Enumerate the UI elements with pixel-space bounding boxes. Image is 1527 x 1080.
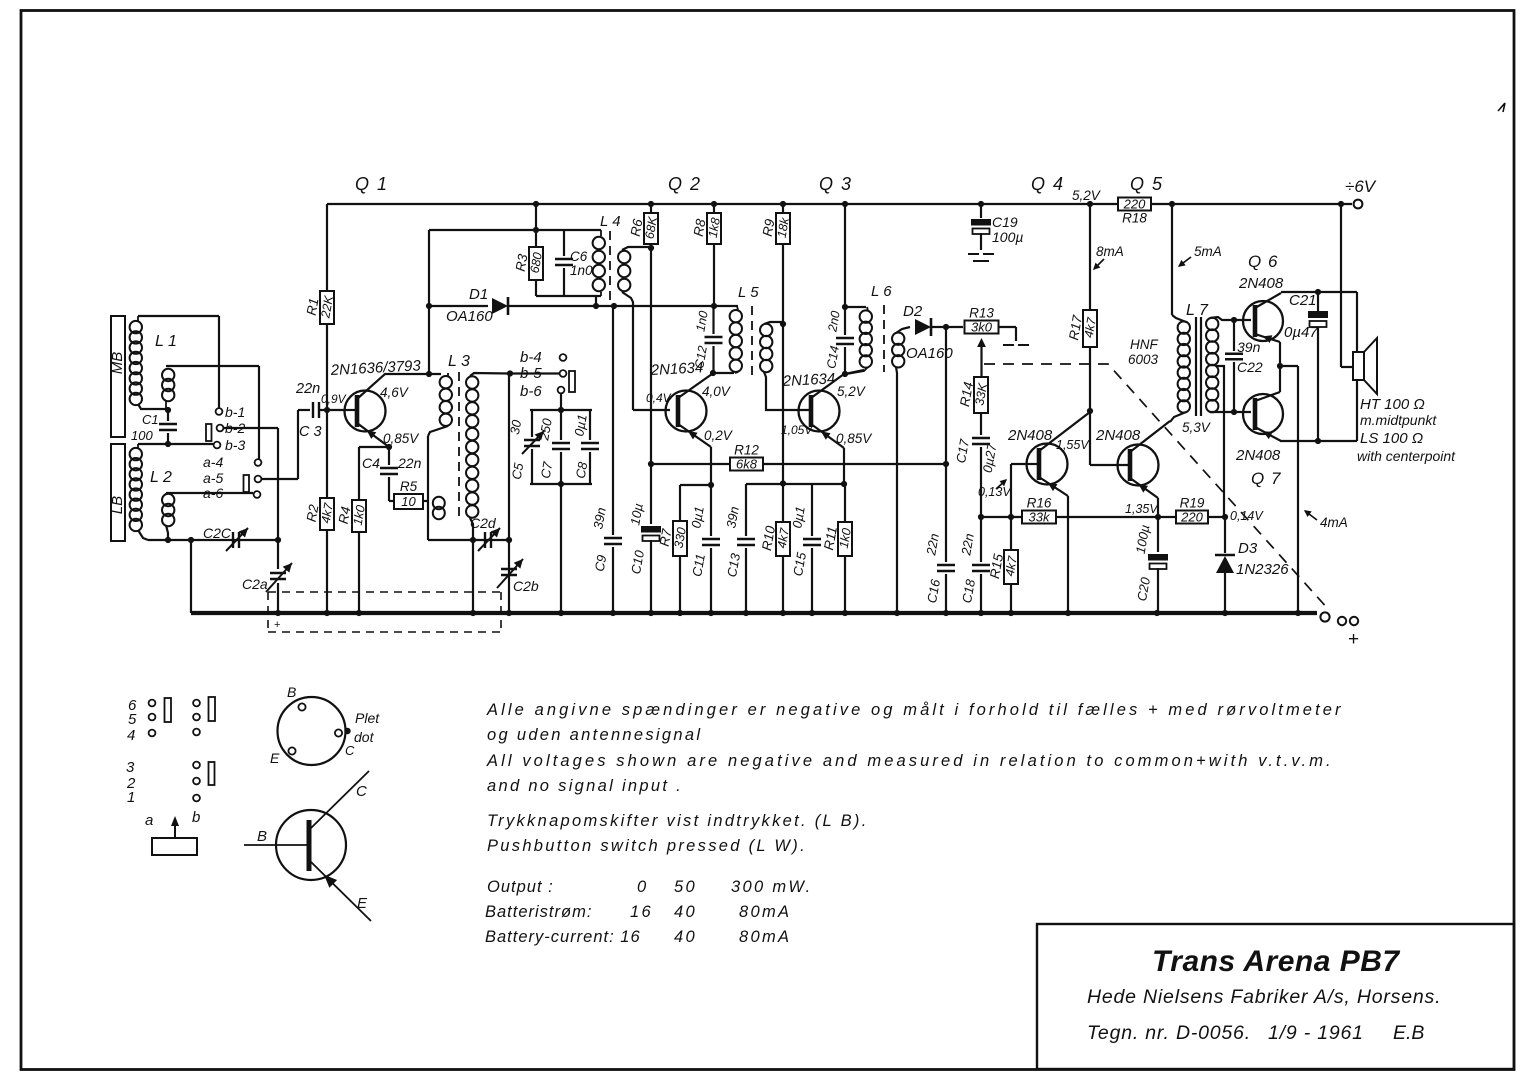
resistor R5 <box>394 494 423 509</box>
capacitor C16 <box>945 464 947 562</box>
trimmer C2C <box>233 532 239 548</box>
node e5node <box>1155 514 1161 520</box>
svg-text:C2a: C2a <box>242 576 268 592</box>
inductor L2 primary <box>130 448 142 460</box>
svg-text:R9: R9 <box>760 217 778 237</box>
svg-text:0,4V: 0,4V <box>646 391 672 405</box>
svg-text:3k0: 3k0 <box>971 320 993 335</box>
svg-text:D1: D1 <box>469 286 488 303</box>
node gnd-680 <box>677 610 683 616</box>
node rail-651 <box>648 201 654 207</box>
svg-text:5,2V: 5,2V <box>837 384 867 399</box>
inductor L1 secondary <box>162 369 174 381</box>
svg-text:6003: 6003 <box>1128 352 1159 367</box>
wire Q1 emitter <box>357 423 389 447</box>
node e1 <box>386 444 392 450</box>
node q7b <box>1231 409 1237 415</box>
transistor Q4 2N408 <box>1027 444 1068 485</box>
node gnd-1157 <box>1154 610 1160 616</box>
switch bar b456 <box>569 371 575 392</box>
wire Q4 collector diag <box>1039 412 1090 451</box>
wire L7 sec bottom to Q7 base <box>1210 411 1251 413</box>
wire L2 top to b-3 <box>138 443 213 445</box>
dashed gang box (tuning capacitor) <box>268 592 501 632</box>
svg-text:39n: 39n <box>1237 339 1261 355</box>
node C9-det <box>611 303 617 309</box>
wire D1 anode drop <box>428 230 430 374</box>
wire D2 to R13 <box>931 326 963 328</box>
capacitor C3 <box>313 402 319 418</box>
wire Q5 base <box>1090 464 1129 466</box>
svg-text:Battery-current: 16: Battery-current: 16 <box>485 928 641 946</box>
capacitor C6 <box>563 230 565 256</box>
transistor Q1 2N1636 <box>345 391 386 432</box>
svg-text:1,55V: 1,55V <box>1056 438 1090 452</box>
wire L2 sec bottom <box>166 525 168 540</box>
node gnd-946 <box>943 610 949 616</box>
wire R5 to L3 tap <box>423 500 428 502</box>
trimmer C2a <box>277 540 279 569</box>
resistor R12 <box>730 458 763 471</box>
svg-text:LS 100 Ω: LS 100 Ω <box>1360 430 1423 447</box>
wire R6 top <box>650 204 652 213</box>
R13 wiper arrow <box>980 341 982 377</box>
node q6b <box>1231 317 1237 323</box>
svg-text:b-3: b-3 <box>225 437 245 453</box>
svg-text:Q 7: Q 7 <box>1251 469 1281 488</box>
wire R9 top <box>782 204 784 213</box>
wire Q6 emitter <box>1255 334 1280 342</box>
wire R8 top <box>713 204 715 213</box>
node det2 <box>943 324 949 330</box>
svg-text:Hede Nielsens Fabriker A/s, H: Hede Nielsens Fabriker A/s, Horsens. <box>1087 986 1441 1008</box>
ground (dashed) C19 <box>968 254 994 261</box>
capacitor C13 <box>745 484 747 536</box>
core L4 <box>609 231 611 300</box>
svg-text:C2C: C2C <box>203 525 232 541</box>
trimmer C5 <box>531 410 533 437</box>
node gnd-473 <box>470 610 476 616</box>
wire b-2 right <box>223 427 278 429</box>
node c2 <box>710 370 716 376</box>
svg-text:R6: R6 <box>628 217 646 237</box>
svg-text:L 6: L 6 <box>871 283 892 300</box>
svg-text:0,9V: 0,9V <box>321 392 347 406</box>
svg-text:a-5: a-5 <box>203 470 223 486</box>
terminal + battery switch <box>1320 612 1329 621</box>
wire detector line <box>429 305 488 307</box>
svg-text:R5: R5 <box>400 479 418 494</box>
inductor L3 secondary <box>466 376 478 388</box>
node gnd-1298 <box>1295 610 1301 616</box>
diode D3 1N2326 <box>1224 517 1226 553</box>
capacitor C19 (electrolytic) <box>980 204 982 218</box>
svg-text:E: E <box>270 750 280 766</box>
resistor R16 <box>1022 511 1056 524</box>
wire bottom common + rail <box>191 611 1317 615</box>
wire Q2 emitter net <box>680 484 711 486</box>
capacitor C7 <box>560 410 562 440</box>
resistor R3 <box>529 247 543 280</box>
diode D2 OA160 <box>915 319 931 335</box>
capacitor C9 <box>604 538 622 544</box>
wire R9-R10 divider <box>782 244 784 483</box>
wire C2C line <box>148 539 278 541</box>
node c3 <box>842 371 848 377</box>
svg-text:40: 40 <box>674 928 697 946</box>
inductor L5 secondary <box>760 324 772 336</box>
wire Q6 collector <box>1255 293 1281 308</box>
wire Q4 base left <box>1011 463 1026 465</box>
svg-text:2N408: 2N408 <box>1235 447 1281 464</box>
svg-text:L 7: L 7 <box>1186 302 1209 319</box>
node C17R16 <box>978 514 984 520</box>
wire Q3 emitter net <box>746 483 844 485</box>
contact b-5 <box>560 370 567 377</box>
capacitor C4 <box>388 447 390 465</box>
capacitor C18 <box>980 517 982 562</box>
svg-text:C2d: C2d <box>470 515 497 531</box>
node L3s-C2d <box>470 537 476 543</box>
svg-text:L 4: L 4 <box>600 213 621 230</box>
svg-text:B: B <box>257 828 267 845</box>
svg-text:C7: C7 <box>538 460 556 480</box>
node rail-1090 <box>1087 201 1093 207</box>
svg-text:1,05V: 1,05V <box>781 423 813 437</box>
node e3 <box>841 481 847 487</box>
resistor R4 <box>352 500 366 532</box>
transistor Q3 2N1634 <box>799 391 840 432</box>
wire L1 top to b-1 <box>138 315 219 317</box>
svg-text:HT 100 Ω: HT 100 Ω <box>1360 396 1425 413</box>
svg-text:with centerpoint: with centerpoint <box>1357 448 1456 464</box>
node gnd-613 <box>610 610 616 616</box>
svg-text:R19: R19 <box>1180 496 1205 511</box>
contact b-1 <box>216 408 223 415</box>
svg-text:40: 40 <box>674 903 697 921</box>
capacitor C15 <box>811 484 813 536</box>
node c4node <box>1087 408 1093 414</box>
switch bar b <box>206 424 212 441</box>
resistor R8 <box>707 213 721 244</box>
legend transistor case bottom view <box>278 697 346 765</box>
svg-text:dot: dot <box>354 729 375 745</box>
svg-text:R12: R12 <box>734 443 759 458</box>
svg-text:6k8: 6k8 <box>736 457 758 472</box>
svg-text:1: 1 <box>127 789 135 806</box>
svg-text:m.midtpunkt: m.midtpunkt <box>1360 412 1437 428</box>
svg-text:R7: R7 <box>657 527 675 547</box>
svg-text:1/9 - 1961: 1/9 - 1961 <box>1268 1022 1364 1044</box>
svg-text:1,35V: 1,35V <box>1125 502 1159 516</box>
svg-text:Trans Arena PB7: Trans Arena PB7 <box>1152 945 1400 978</box>
node gnd-981 <box>978 610 984 616</box>
node gnd-1225 <box>1222 610 1228 616</box>
wire Q2 collector <box>678 374 712 398</box>
svg-text:0,14V: 0,14V <box>1230 509 1264 523</box>
wire AVC line right <box>763 463 946 465</box>
wire R13 right <box>998 326 1016 328</box>
svg-text:D3: D3 <box>1238 540 1258 557</box>
wire L2 bottom <box>138 530 148 540</box>
wire C3 to Q1 base <box>319 409 345 411</box>
node rail-1172 <box>1169 201 1175 207</box>
resistor R18 <box>1118 198 1151 211</box>
resistor R11 <box>838 522 852 556</box>
svg-text:R18: R18 <box>1122 211 1147 226</box>
node rail-714 <box>711 201 717 207</box>
contact b-2 <box>217 425 224 432</box>
capacitor C22 <box>1233 320 1235 351</box>
svg-text:C 3: C 3 <box>299 424 322 440</box>
node railR3 <box>533 227 539 233</box>
wire L6 supply <box>844 204 846 307</box>
node div3 <box>780 480 786 486</box>
svg-text:b-5: b-5 <box>520 365 542 382</box>
svg-text:D2: D2 <box>903 303 923 320</box>
wire Q1 collector <box>357 374 441 399</box>
svg-text:300 mW.: 300 mW. <box>731 878 813 896</box>
node e2 <box>708 482 714 488</box>
wire R1 top <box>326 204 328 291</box>
svg-text:and no signal input .: and no signal input . <box>487 777 683 795</box>
svg-text:R2: R2 <box>304 503 322 523</box>
resistor R2 <box>320 498 334 530</box>
MB band bar <box>111 316 125 437</box>
capacitor C17 <box>972 438 990 444</box>
node agc-C10 <box>648 461 654 467</box>
resistor R15 <box>1004 550 1018 584</box>
svg-text:R16: R16 <box>1027 496 1052 511</box>
transistor Q5 2N408 <box>1118 445 1159 486</box>
svg-text:Q 4: Q 4 <box>1031 174 1065 194</box>
svg-text:C22: C22 <box>1237 359 1263 375</box>
svg-text:b-6: b-6 <box>520 383 542 400</box>
svg-text:÷6V: ÷6V <box>1345 177 1377 196</box>
wire output top <box>1281 291 1357 293</box>
svg-text:0µ47: 0µ47 <box>1284 324 1318 341</box>
resistor R17 <box>1083 310 1097 347</box>
capacitor C12 <box>712 306 714 334</box>
wire L5 sec top <box>764 322 783 324</box>
wire Q3 collector <box>811 374 844 398</box>
diode D1 OA160 <box>492 298 508 314</box>
svg-text:+: + <box>1348 629 1359 650</box>
svg-text:C6: C6 <box>570 249 588 264</box>
svg-text:R3: R3 <box>513 252 531 272</box>
node rail-845 <box>842 201 848 207</box>
svg-text:b-1: b-1 <box>225 404 245 420</box>
wire det2 down <box>945 327 947 464</box>
svg-text:2N1634: 2N1634 <box>649 359 703 379</box>
inductor L3 primary <box>440 376 452 388</box>
svg-text:22n: 22n <box>295 381 320 397</box>
svg-text:220: 220 <box>1180 510 1203 525</box>
node C1-b3 <box>165 441 171 447</box>
capacitor C11 <box>710 485 712 536</box>
contact a-4 <box>255 459 262 466</box>
node outmid <box>1277 363 1283 369</box>
svg-text:+: + <box>274 619 280 631</box>
resistor R6 <box>644 213 658 244</box>
wire L6 sec bottom to rail <box>896 367 897 613</box>
inductor L2 secondary <box>162 494 174 506</box>
inductor L7 secondary <box>1206 318 1218 330</box>
wire L3 prim bottom <box>428 426 448 436</box>
svg-text:HNF: HNF <box>1130 337 1158 352</box>
svg-text:b-4: b-4 <box>520 349 542 366</box>
wire Q5 emitter <box>1130 478 1158 498</box>
capacitor C1 <box>167 410 169 421</box>
node gnd-359 <box>356 610 362 616</box>
svg-text:4mA: 4mA <box>1320 515 1348 530</box>
svg-text:Q 2: Q 2 <box>668 174 702 194</box>
capacitor C21 (electrolytic) <box>1317 292 1319 311</box>
node R1-base <box>324 407 330 413</box>
svg-text:C5: C5 <box>509 461 527 481</box>
svg-text:a: a <box>145 812 153 829</box>
wire centerpoint feed <box>1340 204 1342 367</box>
node blockgnd <box>558 481 564 487</box>
node c21bot <box>1315 438 1321 444</box>
svg-text:L 1: L 1 <box>155 333 177 350</box>
node L4p-det <box>593 303 599 309</box>
svg-text:0,13V: 0,13V <box>978 485 1012 499</box>
capacitor C20 (electrolytic) <box>1157 517 1159 552</box>
svg-text:Q 3: Q 3 <box>819 174 853 194</box>
svg-text:Q 6: Q 6 <box>1248 252 1278 271</box>
svg-text:100: 100 <box>131 428 153 443</box>
node colQ1 <box>426 371 432 377</box>
resistor R1 <box>320 291 334 324</box>
node b2-C2C <box>275 537 281 543</box>
wire Q3 emitter <box>811 424 844 448</box>
speaker LS/HT <box>1356 292 1358 352</box>
wire bias line <box>981 516 1022 518</box>
wire padder block bottom <box>530 483 592 485</box>
inductor L1 primary <box>130 321 142 333</box>
svg-text:5mA: 5mA <box>1194 244 1222 259</box>
wire base to R2 <box>326 410 328 498</box>
capacitor C10 (electrolytic) <box>650 464 652 524</box>
svg-text:1n0: 1n0 <box>570 263 593 278</box>
node gnd-278 <box>275 610 281 616</box>
contact a-6 <box>254 491 261 498</box>
svg-text:220: 220 <box>1123 197 1146 212</box>
node gnd-812 <box>809 610 815 616</box>
legend transistor symbol <box>276 810 346 880</box>
node L1-C1 <box>165 407 171 413</box>
svg-text:C8: C8 <box>573 460 591 480</box>
wire top supply rail (right of R18) <box>1151 203 1352 205</box>
node rail-536 <box>533 201 539 207</box>
node d3node <box>1222 514 1228 520</box>
svg-text:L 5: L 5 <box>738 284 759 301</box>
wire b-5 junction down through C2b <box>508 374 510 614</box>
svg-text:Tegn. nr. D-0056.: Tegn. nr. D-0056. <box>1087 1022 1251 1044</box>
wire R3C6L4 bottom <box>536 295 601 297</box>
inductor L4 primary <box>593 237 605 249</box>
switch bar a <box>244 475 250 492</box>
wire Q5 collector diag <box>1130 421 1170 452</box>
node rail-981 <box>978 201 984 207</box>
node r15top <box>1008 514 1014 520</box>
wire L4 sec top to R6 <box>622 247 651 250</box>
svg-text:C1: C1 <box>142 412 159 427</box>
svg-text:5,3V: 5,3V <box>1182 420 1212 435</box>
svg-text:Q 5: Q 5 <box>1130 174 1164 194</box>
svg-text:5: 5 <box>128 711 137 728</box>
LB band bar <box>111 444 125 541</box>
node gnd-327 <box>324 610 330 616</box>
transistor Q7 2N408 <box>1243 394 1283 434</box>
svg-text:16: 16 <box>630 903 653 921</box>
svg-text:Batteristrøm:: Batteristrøm: <box>485 903 592 921</box>
resistor R13 <box>965 321 999 334</box>
node gnd-783 <box>780 610 786 616</box>
svg-text:4,6V: 4,6V <box>380 385 410 400</box>
svg-text:Pushbutton switch pressed (L: Pushbutton switch pressed (L W). <box>487 837 807 855</box>
svg-text:50: 50 <box>674 878 697 896</box>
node gndleft <box>188 537 194 543</box>
wire L2 sec to a-6 <box>166 492 253 494</box>
resistor R19 <box>1176 511 1208 524</box>
wire R6/AVC drop <box>650 244 652 464</box>
inductor L7 primary <box>1178 321 1190 333</box>
svg-text:Trykknapomskifter vist indtr: Trykknapomskifter vist indtrykket. (L B)… <box>487 812 869 830</box>
svg-text:All voltages shown are nega: All voltages shown are negative and meas… <box>486 752 1334 770</box>
transistor Q2 2N1634 <box>666 391 707 432</box>
wire C2d line <box>428 539 509 541</box>
svg-text:22n: 22n <box>397 455 422 471</box>
inductor L6 secondary <box>892 333 904 345</box>
svg-text:R1: R1 <box>304 297 322 317</box>
inductor L3 tap winding <box>433 497 445 509</box>
wire L3 sec bottom <box>470 518 473 540</box>
wire Q1 emitter to R4 <box>359 446 389 448</box>
terminal -6V <box>1354 200 1363 209</box>
wire left drop to rail <box>190 540 192 613</box>
svg-text:L 2: L 2 <box>150 469 172 486</box>
title block <box>1037 924 1514 1069</box>
wire Q2 emitter <box>678 424 711 447</box>
core L7 <box>1195 317 1197 416</box>
svg-text:C4: C4 <box>362 455 380 471</box>
inductor L4 secondary <box>618 251 630 263</box>
wire output bottom <box>1280 440 1357 442</box>
wire L3 sec top to b-5 <box>470 373 560 376</box>
svg-text:2N408: 2N408 <box>1007 427 1053 444</box>
wire L7 sec top to Q6 base <box>1210 317 1251 320</box>
transistor Q6 2N408 <box>1243 301 1283 341</box>
svg-text:b: b <box>192 809 200 826</box>
svg-text:8mA: 8mA <box>1096 244 1124 259</box>
svg-text:C2b: C2b <box>513 578 539 594</box>
svg-text:Alle angivne spændinger er neg: Alle angivne spændinger er negative og m… <box>486 701 1344 719</box>
svg-text:33k: 33k <box>1029 510 1051 525</box>
svg-text:C: C <box>356 783 367 800</box>
node c21top <box>1315 289 1321 295</box>
svg-text:80mA: 80mA <box>739 903 791 921</box>
contact b-3 <box>214 442 221 449</box>
wire a-5 to C3 <box>261 478 298 480</box>
svg-text:C19: C19 <box>992 214 1018 230</box>
node gnd-1068 <box>1065 610 1071 616</box>
svg-text:C9: C9 <box>592 554 610 573</box>
svg-text:2N408: 2N408 <box>1238 275 1284 292</box>
svg-text:R13: R13 <box>969 306 994 321</box>
node gnd-711 <box>708 610 714 616</box>
